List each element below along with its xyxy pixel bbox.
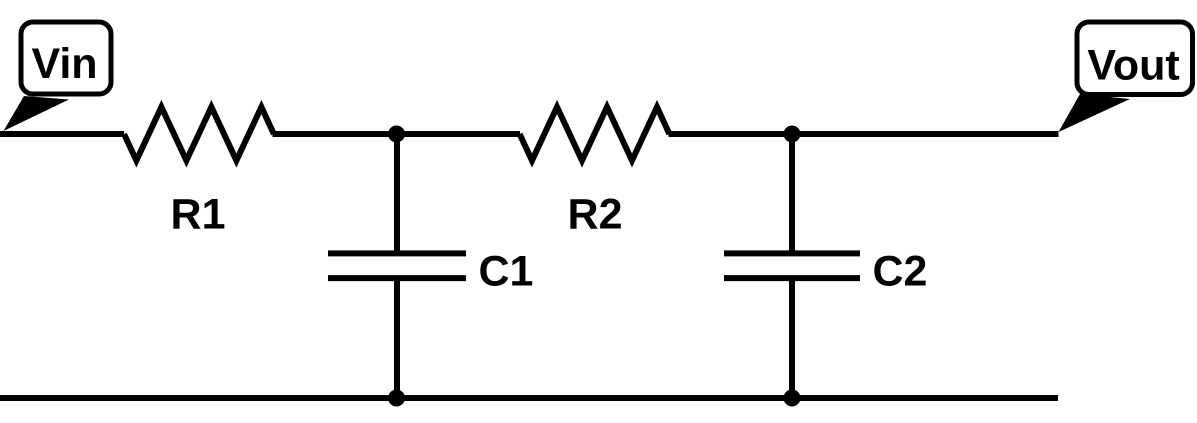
ground junction dot below C1 bbox=[388, 390, 405, 407]
wire node B to Vout bbox=[792, 131, 1059, 137]
node A junction dot bbox=[388, 126, 405, 143]
wire node A to R2 bbox=[397, 131, 520, 137]
wire ground rail bbox=[0, 395, 1058, 401]
Vout callout box bbox=[1077, 22, 1193, 95]
wire C1 bottom plate to ground rail bbox=[394, 281, 400, 399]
wire C2 bottom plate to ground rail bbox=[789, 281, 795, 399]
ground junction dot below C2 bbox=[784, 390, 801, 407]
resistor R2 bbox=[520, 107, 670, 161]
svg-text:R1: R1 bbox=[171, 191, 226, 239]
svg-text:C2: C2 bbox=[873, 248, 928, 296]
svg-text:R2: R2 bbox=[568, 191, 623, 239]
Vin callout box bbox=[21, 22, 111, 94]
capacitor C2 bbox=[724, 253, 860, 278]
wire node B down to C2 top plate bbox=[789, 134, 795, 251]
resistor R1 bbox=[124, 107, 274, 161]
wire R2 to node B bbox=[669, 131, 793, 137]
wire Vin input segment bbox=[0, 131, 124, 137]
svg-text:Vout: Vout bbox=[1087, 42, 1179, 90]
capacitor C1 bbox=[328, 253, 466, 278]
Vout callout tail bbox=[1059, 94, 1131, 132]
wire R1 to node A bbox=[273, 131, 398, 137]
svg-text:C1: C1 bbox=[479, 248, 534, 296]
svg-text:Vin: Vin bbox=[31, 40, 97, 88]
wire node A down to C1 top plate bbox=[394, 134, 400, 251]
Vin callout tail bbox=[4, 96, 70, 131]
node B junction dot bbox=[784, 126, 801, 143]
